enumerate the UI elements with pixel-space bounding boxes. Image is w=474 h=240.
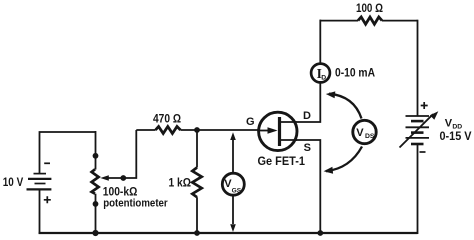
svg-text:DS: DS bbox=[365, 133, 375, 140]
svg-text:10 V: 10 V bbox=[3, 175, 23, 189]
svg-text:V: V bbox=[356, 127, 364, 139]
svg-text:D: D bbox=[303, 110, 311, 122]
svg-text:Ge FET-1: Ge FET-1 bbox=[258, 154, 306, 168]
svg-text:1 kΩ: 1 kΩ bbox=[169, 175, 192, 189]
svg-text:D: D bbox=[321, 75, 326, 82]
svg-text:0-10 mA: 0-10 mA bbox=[335, 68, 375, 80]
svg-text:G: G bbox=[246, 116, 255, 128]
svg-text:0-15 V: 0-15 V bbox=[440, 131, 472, 143]
svg-text:100 Ω: 100 Ω bbox=[356, 3, 383, 15]
svg-text:470 Ω: 470 Ω bbox=[153, 113, 181, 125]
svg-text:100-kΩ: 100-kΩ bbox=[103, 184, 138, 198]
svg-text:DD: DD bbox=[452, 124, 462, 131]
svg-text:GS: GS bbox=[232, 188, 242, 195]
svg-text:S: S bbox=[304, 142, 311, 154]
svg-text:potentiometer: potentiometer bbox=[103, 198, 168, 210]
